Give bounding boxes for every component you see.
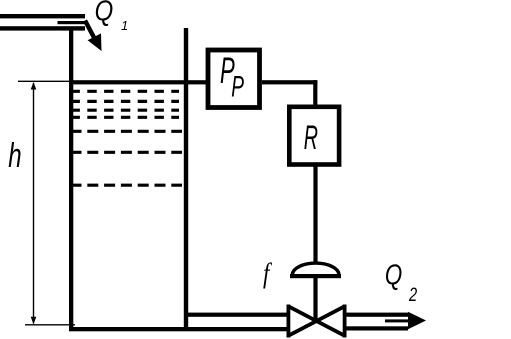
water dashed line 2	[71, 100, 180, 103]
water dashed line 6	[71, 151, 183, 154]
water dashed line 7	[71, 184, 183, 187]
svg-text:h: h	[8, 137, 21, 175]
wire R to actuator	[313, 164, 317, 262]
svg-text:1: 1	[121, 18, 128, 33]
svg-text:R: R	[304, 118, 318, 156]
label Q2	[385, 260, 418, 305]
water dashed line 1	[71, 90, 180, 93]
dimension extension line top	[18, 80, 69, 82]
actuator dome f	[290, 263, 341, 278]
svg-text:2: 2	[408, 283, 417, 306]
level sensor box PP	[208, 50, 260, 108]
inlet pipe spout edge	[58, 21, 87, 24]
outlet pipe bottom wall after valve	[347, 326, 409, 330]
water surface line and connector to level sensor	[69, 80, 208, 84]
inflow arrow	[85, 21, 102, 52]
outlet pipe top wall after valve	[347, 313, 409, 317]
svg-text:P: P	[231, 70, 244, 103]
svg-text:Q: Q	[95, 0, 114, 27]
svg-text:f: f	[263, 257, 273, 289]
dimension extension line bottom	[25, 324, 75, 326]
water dashed line 4	[71, 116, 180, 119]
water dashed line 5	[71, 130, 183, 133]
regulator box R	[289, 107, 339, 165]
outlet pipe top wall	[188, 313, 287, 317]
inlet pipe lower wall	[0, 26, 85, 30]
svg-text:Q: Q	[385, 260, 402, 291]
label PP	[220, 49, 244, 104]
tank bottom and outlet pipe bottom wall	[69, 327, 287, 331]
outflow arrow Q2	[385, 312, 426, 329]
dimension line h with arrowheads	[31, 82, 37, 324]
tank right wall	[184, 28, 188, 331]
valve body	[287, 305, 347, 338]
tank left wall	[69, 30, 73, 332]
wire PP to regulator R	[262, 80, 317, 105]
inlet pipe upper wall	[0, 14, 85, 18]
valve stem	[313, 278, 317, 321]
water dashed line 3	[71, 109, 180, 112]
label Q1	[95, 0, 129, 33]
